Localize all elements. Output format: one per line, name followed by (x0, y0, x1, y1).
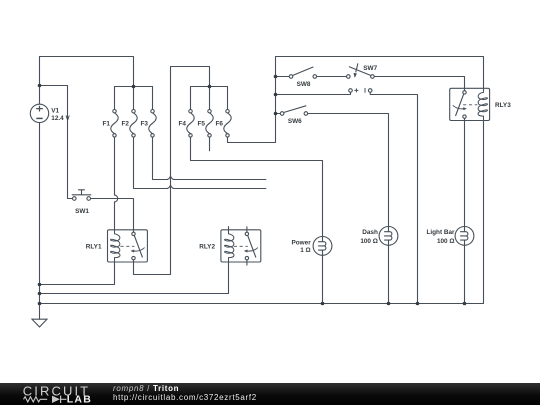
wire: V1+ top loop (40, 57, 134, 105)
svg-text:1 Ω: 1 Ω (300, 247, 310, 254)
svg-text:F3: F3 (141, 121, 149, 128)
wire: F4 top stub (190, 87, 192, 110)
RLY3 coil (478, 87, 487, 123)
junction: F2 rail (132, 85, 136, 89)
RLY2 coil (225, 228, 234, 264)
wire: F1-F3 supply rail (115, 86, 153, 88)
wire: F2 bottom run (dead end) (134, 137, 266, 188)
footer credit text (113, 385, 257, 402)
switch SW8 (289, 67, 316, 78)
svg-text:F5: F5 (198, 121, 206, 128)
switch SW6 (280, 106, 307, 116)
svg-text:SW6: SW6 (288, 118, 302, 125)
RLY3 switch arm (456, 94, 464, 116)
wire: SW8 to SW7 (316, 76, 346, 78)
wire: RLY2 coil to ground rail (40, 261, 229, 293)
wire: F1 bottom to RLY1 coil (hops over SW1 wire) (115, 137, 118, 232)
wire: RLY2 switch bottom stub (246, 260, 248, 265)
junction: ground-RLY2 (38, 292, 42, 296)
svg-text:RLY2: RLY2 (199, 244, 215, 251)
fuse F6 (224, 110, 231, 138)
svg-text:LAB: LAB (67, 394, 92, 405)
logo resistor zigzag (24, 397, 48, 402)
voltage source V1 (30, 104, 48, 122)
wire: rail to SW6 (276, 113, 281, 115)
junction: ground-RLY1 (38, 283, 42, 287)
svg-text:Power: Power (292, 240, 312, 247)
wire: RLY1 coil to ground rail (40, 261, 115, 284)
junction: rail-Dash (387, 302, 391, 306)
relay RLY1 (108, 228, 148, 264)
wire: Light Bar lamp bottom (464, 245, 466, 303)
svg-text:SW7: SW7 (363, 65, 377, 72)
junction: V1+ node (38, 84, 42, 88)
RLY1 actuate link (dashed) (120, 245, 134, 247)
wire: main ground rail (40, 303, 484, 305)
wire: V1+ to SW1 (40, 86, 73, 199)
svg-text:100 Ω: 100 Ω (360, 238, 378, 245)
wire: F6 bottom to right rail (228, 57, 484, 143)
relay RLY3 (450, 87, 490, 123)
RLY3 switch contacts (463, 91, 466, 94)
RLY1 switch arm (134, 236, 142, 258)
wire: Power lamp bottom (322, 255, 324, 303)
wire: F5 top stub (209, 87, 211, 110)
wire: RLY2 coil top stub (228, 227, 230, 234)
RLY2 switch arm (248, 236, 256, 258)
junction: ground-rail (38, 302, 42, 306)
svg-text:F2: F2 (122, 121, 130, 128)
junction: rail-SW6 (274, 112, 278, 116)
junction: rail-SW8 (274, 75, 278, 79)
wire: RLY2 switch top stub (246, 227, 248, 232)
wire: RLY3 switch to Light Bar lamp (464, 117, 466, 226)
svg-text:F6: F6 (216, 121, 224, 128)
svg-text:SW1: SW1 (75, 208, 89, 215)
RLY2 actuate link (dashed) (234, 245, 248, 247)
svg-text:12.4 V: 12.4 V (51, 115, 70, 122)
wire: F2 top stub (133, 87, 135, 110)
fuse F1 (111, 110, 118, 138)
switch SW7 (momentary) (347, 63, 375, 78)
wire: rail to connector J1 (276, 92, 351, 94)
junction: rail-Power (321, 302, 325, 306)
fuse F5 (206, 110, 213, 138)
RLY3 actuate link (dashed) (463, 104, 477, 106)
wire: F4-F6 feed loop (134, 67, 210, 275)
junction: F5 rail (208, 85, 212, 89)
connector J1 (+ terminal markings) (349, 88, 372, 93)
svg-text:100 Ω: 100 Ω (437, 238, 455, 245)
wire: RLY3 coil bottom (483, 118, 485, 303)
relay RLY2 (221, 228, 261, 264)
svg-text:RLY1: RLY1 (86, 244, 102, 251)
wire: SW1 to RLY1 switch (90, 199, 133, 232)
fuse F2 (130, 110, 137, 138)
wire: F5 bottom stub (209, 137, 211, 151)
wire: F3 top stub (152, 87, 154, 110)
wire: SW6 to Dash lamp (308, 114, 389, 227)
lamp Dash (100 ohm) (379, 227, 398, 246)
RLY1 coil (111, 228, 120, 264)
wire: SW7 to RLY3 switch (374, 77, 464, 91)
junction: rail-J1 (274, 93, 278, 97)
wire: Dash lamp bottom (388, 245, 390, 303)
lamp Light Bar (100 ohm) (455, 227, 474, 246)
wire: F1 top stub (114, 87, 116, 110)
logo diode (52, 396, 60, 403)
wire hop: F2 run arches over loop wire (167, 185, 174, 188)
svg-text:RLY3: RLY3 (495, 102, 511, 109)
pushbutton SW1 (72, 190, 91, 201)
RLY1 switch contacts (132, 232, 135, 235)
wire: F3 bottom run (dead end) (153, 137, 266, 179)
lamp Power (1 ohm) (313, 237, 332, 256)
junction: rail-J1 bottom (416, 302, 420, 306)
wire: rail to SW8 (276, 76, 290, 78)
ground symbol (32, 319, 47, 327)
RLY2 switch contacts (245, 232, 248, 235)
wire hop: F3 run arches over loop wire (167, 176, 174, 179)
junction: rail-LightBar (463, 302, 467, 306)
wire: connector J1 to ground rail (370, 92, 417, 303)
wire: F4-F6 supply rail (191, 86, 228, 88)
fuse F4 (187, 110, 194, 138)
CircuitLab logo (0, 383, 150, 405)
svg-text:Dash: Dash (362, 229, 378, 236)
svg-text:F1: F1 (103, 121, 111, 128)
footer bar (0, 383, 540, 405)
svg-text:F4: F4 (179, 121, 187, 128)
wire: F4 bottom to Power lamp (191, 137, 323, 237)
svg-text:V1: V1 (51, 108, 59, 115)
svg-text:Light Bar: Light Bar (426, 229, 455, 236)
svg-text:SW8: SW8 (297, 81, 311, 88)
wire: F6 top stub (227, 87, 229, 110)
wire: V1- to ground (39, 123, 41, 320)
fuse F3 (149, 110, 156, 138)
